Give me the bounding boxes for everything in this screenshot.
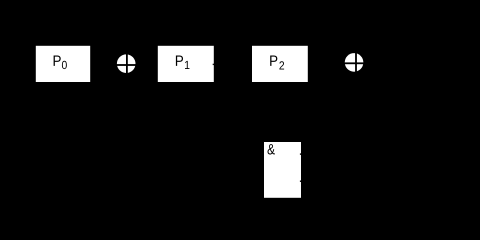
- wire stub into right edge of P1: [213, 64, 214, 65]
- register P2: [252, 46, 308, 82]
- XOR adder X1: [115, 52, 138, 75]
- wire stub into right edge of AND gate (upper): [300, 153, 301, 154]
- XOR adder X2: [342, 51, 365, 74]
- AND gate U1 (&): [264, 142, 301, 198]
- register P0: [36, 46, 90, 82]
- register P1: [158, 46, 214, 82]
- wire stub into right edge of AND gate (lower): [300, 181, 301, 182]
